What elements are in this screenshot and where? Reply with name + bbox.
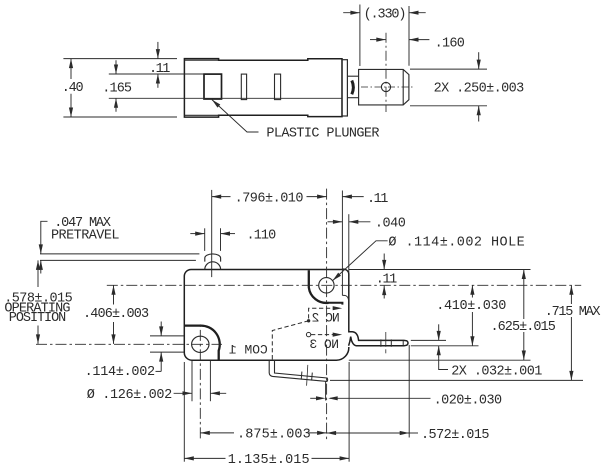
svg-text:(.330): (.330): [364, 8, 406, 23]
slot vertical centerline: [199, 324, 201, 441]
.047 bottom arrow: [39, 260, 43, 270]
.875 right arrow: [317, 431, 327, 435]
slot 3: [275, 74, 281, 100]
.11 vertical top arrow shaft: [383, 254, 385, 270]
.020 right shaft: [330, 397, 431, 399]
.406 upper shaft: [113, 285, 115, 304]
svg-text:COM 1: COM 1: [229, 342, 268, 357]
.406 bottom arrow: [111, 334, 115, 344]
.406 top arrow: [111, 285, 115, 295]
slot bottom extension left: [150, 351, 184, 353]
.165 top arrow shaft: [115, 60, 117, 74]
.110 left arrow shaft: [190, 233, 204, 235]
.040 left arrow shaft: [328, 221, 343, 223]
tip chamfer line: [402, 69, 404, 105]
spring mark in neck: [352, 81, 354, 95]
neck bottom edge: [347, 97, 358, 99]
neck top edge: [347, 75, 358, 77]
.110 left extension line: [204, 228, 206, 251]
body left edge extension down: [183, 362, 185, 462]
.578 top arrow: [36, 260, 40, 270]
.11 vertical bottom arrow: [382, 286, 386, 296]
collar ring: [342, 60, 347, 116]
plastic plunger leader: [212, 100, 259, 132]
COM terminal bend tick 1: [300, 372, 303, 380]
NO dashed arrowhead: [333, 333, 343, 337]
NO terminal tick 2: [390, 339, 392, 346]
.165 bottom arrow shaft: [115, 98, 117, 112]
svg-text:NC 2: NC 2: [312, 310, 339, 325]
.11 vertical top arrow: [382, 260, 386, 270]
plastic plunger leader arrowhead: [212, 100, 220, 108]
slot 2: [241, 74, 246, 100]
.715 bottom arrow: [569, 371, 573, 381]
slot horizontal centerline: [36, 343, 222, 345]
.020 right arrow: [328, 396, 338, 400]
.114 bottom arrow: [159, 352, 163, 362]
svg-text:Ø .114±.002 HOLE: Ø .114±.002 HOLE: [388, 235, 525, 250]
.410 bottom arrow: [470, 336, 474, 346]
terminal bottom extension right: [411, 345, 479, 347]
NO terminal tip bend line: [402, 340, 404, 345]
svg-text:.40: .40: [62, 81, 84, 96]
.020 left arrow: [316, 396, 326, 400]
1.135 dim line right: [312, 457, 350, 459]
tip vertical centerline: [385, 33, 387, 112]
.11 vertical bottom arrow shaft: [383, 286, 385, 299]
svg-text:PRETRAVEL: PRETRAVEL: [51, 228, 119, 243]
.572 dim line mid: [344, 432, 409, 434]
(.330) left extension line: [359, 5, 361, 67]
body right edge extension down: [348, 362, 350, 462]
hole horizontal centerline: [107, 284, 581, 286]
1.135 dim line left: [184, 457, 225, 459]
svg-text:NO 3: NO 3: [310, 337, 339, 352]
NO contact open circle: [306, 332, 310, 336]
.032 leader elbow: [439, 359, 448, 370]
.796 dim line left: [212, 196, 231, 198]
plunger tip outline: [359, 69, 409, 105]
slot left edge extension down: [191, 361, 193, 401]
.11 bottom arrow: [156, 74, 160, 84]
common contact pivot dot: [307, 319, 310, 322]
.020 left shaft: [310, 397, 319, 399]
tip horizontal centerline: [361, 86, 413, 88]
slot right edge extension down: [209, 361, 211, 401]
hole callout arrowhead: [333, 273, 341, 281]
svg-text:2X .250±.003: 2X .250±.003: [434, 81, 525, 96]
hole callout leader: [333, 241, 388, 281]
.796 right arrow: [317, 195, 327, 199]
svg-text:.165: .165: [102, 82, 132, 97]
body top edge extension right: [349, 269, 531, 271]
switch body outline: [184, 269, 408, 360]
.875 dim line right: [309, 432, 327, 434]
svg-text:1.135±.015: 1.135±.015: [228, 453, 310, 468]
.126 right arrow: [210, 391, 220, 395]
NC hidden terminal dashed leader: [309, 308, 336, 318]
svg-text:.110: .110: [247, 229, 277, 244]
hidden terminal tip extension line: [341, 191, 343, 296]
COM terminal outline: [269, 360, 327, 381]
.11 top arrow: [156, 49, 160, 59]
.110 right extension line: [220, 228, 222, 251]
.572 dim tail: [409, 432, 418, 434]
.40 bottom extension line: [63, 116, 177, 118]
.796 dim line right: [307, 196, 327, 198]
operating position line: [40, 259, 196, 261]
COM terminal hole centerline: [307, 365, 308, 386]
.625 upper shaft: [523, 270, 525, 320]
svg-text:.625±.015: .625±.015: [491, 320, 556, 335]
body bottom edge extension right: [349, 359, 531, 361]
svg-text:POSITION: POSITION: [9, 311, 66, 326]
.040 right arrow shaft: [349, 221, 371, 223]
.047 bottom arrow shaft: [40, 260, 42, 273]
2X .250 top arrow shaft: [478, 52, 480, 69]
body right edge extension up: [348, 214, 350, 273]
top-right boss bottom edge: [328, 303, 342, 305]
.572 right arrow: [400, 431, 410, 435]
bottom-left boss outline: [185, 326, 220, 360]
.40 bottom arrow: [69, 108, 73, 118]
.114 top arrow: [159, 326, 163, 336]
plunger vertical centerline / .796 extension: [211, 190, 213, 277]
svg-text:2X .032±.001: 2X .032±.001: [451, 365, 542, 380]
.572 left arrow: [327, 431, 337, 435]
svg-text:.410±.030: .410±.030: [436, 299, 506, 314]
plunger assembly body outline: [184, 59, 342, 118]
svg-text:.11: .11: [367, 192, 388, 207]
.715 top arrow: [569, 285, 573, 295]
2X .250 bottom arrow: [477, 106, 481, 116]
.165 upper extension line: [109, 73, 204, 75]
1.135 right arrow: [340, 456, 350, 460]
lowest plane extension line: [330, 379, 583, 381]
svg-text:.796±.010: .796±.010: [235, 192, 304, 207]
svg-text:.11: .11: [376, 273, 397, 288]
svg-text:.572±.015: .572±.015: [421, 428, 489, 443]
body seam line / .165 lower extension: [109, 97, 342, 99]
body top line under cap: [184, 59, 218, 61]
COM terminal bend tick 2: [311, 373, 314, 381]
.110 right arrow: [221, 232, 231, 236]
.047 top arrow: [39, 244, 43, 254]
mounting hole .114 circle: [319, 278, 334, 293]
.047 leader elbow: [41, 221, 48, 241]
svg-text:.040: .040: [375, 217, 406, 232]
2X .250 bottom arrow shaft: [478, 106, 480, 122]
.578 bottom arrow: [36, 334, 40, 344]
slot top extension left: [150, 335, 184, 337]
NO terminal hole centerline: [385, 332, 387, 347]
.126 right arrow shaft: [210, 392, 226, 394]
tip cross hole circle: [381, 82, 390, 91]
.406 lower shaft: [113, 322, 115, 344]
.11 dim shaft: [342, 196, 363, 198]
.40 dim line upper: [70, 59, 72, 79]
.625 lower shaft: [523, 332, 525, 360]
mounting slot .126 ellipse: [192, 336, 209, 352]
svg-text:Ø .126±.002: Ø .126±.002: [87, 388, 172, 403]
(.330) right arrow: [409, 11, 419, 15]
1.135 left arrow: [184, 456, 194, 460]
.40 top arrow: [69, 59, 73, 69]
.11 arrow: [342, 195, 352, 199]
.047 top arrow shaft: [40, 242, 42, 254]
.715 lower shaft: [570, 317, 572, 380]
2X .250 bottom extension line: [410, 105, 487, 107]
terminal tip corner extension: [325, 382, 327, 401]
.032 top arrow: [437, 331, 441, 341]
.160 left arrow shaft: [370, 39, 386, 41]
(.330)/.160 right extension line: [408, 6, 410, 66]
plastic plunger window: [204, 74, 222, 99]
.110 left arrow: [195, 232, 205, 236]
(.330) right arrow shaft: [409, 12, 426, 14]
.11 top arrow shaft: [157, 42, 159, 59]
(.330) left arrow shaft: [343, 12, 360, 14]
svg-text:.11: .11: [149, 62, 170, 77]
svg-text:.020±.030: .020±.030: [434, 394, 502, 409]
NO hidden terminal dashed leader: [311, 334, 336, 336]
NC dashed arrowhead: [333, 306, 343, 310]
svg-text:.875±.003: .875±.003: [237, 428, 311, 443]
.114 top arrow shaft: [160, 322, 162, 336]
.160 right arrow shaft: [409, 39, 429, 41]
svg-text:.160: .160: [435, 36, 465, 51]
top-right boss notch and arc: [309, 270, 329, 303]
hole vertical centerline: [326, 189, 328, 441]
.165 top arrow: [114, 65, 118, 75]
.875 dim line left: [200, 432, 234, 434]
.114 bottom arrow shaft: [160, 352, 162, 371]
NO terminal tick 1: [380, 339, 382, 346]
.032 bottom arrow: [437, 346, 441, 356]
.410 upper shaft: [471, 285, 473, 297]
svg-text:.715 MAX: .715 MAX: [545, 305, 601, 320]
.578 dim upper shaft: [37, 260, 39, 287]
dashed link from pivot to COM terminal: [272, 321, 308, 360]
.410 lower shaft: [471, 312, 473, 346]
.160 right arrow: [409, 38, 419, 42]
svg-text:PLASTIC PLUNGER: PLASTIC PLUNGER: [266, 127, 379, 142]
terminal tip extension down: [408, 345, 410, 438]
terminal extension fillet into body edge: [342, 295, 348, 299]
NO terminal hole centerline dash: [385, 349, 387, 353]
2X .250 top extension line: [410, 68, 487, 70]
2X .250 top arrow: [477, 60, 481, 70]
.110 right arrow shaft: [221, 233, 236, 235]
.126 left arrow: [183, 391, 193, 395]
svg-text:.114±.002: .114±.002: [85, 365, 155, 380]
.625 top arrow: [522, 270, 526, 280]
.114 leader elbow: [156, 370, 162, 372]
plunger operating position dome: [205, 262, 221, 270]
.160 left arrow: [376, 38, 386, 42]
.126 left arrow shaft: [174, 392, 192, 394]
.715 upper shaft: [570, 285, 572, 304]
.032 bottom arrow shaft: [438, 346, 440, 359]
.040 left arrow: [333, 220, 343, 224]
.165 bottom arrow: [114, 98, 118, 108]
.032 top arrow shaft: [438, 324, 440, 340]
svg-text:.406±.003: .406±.003: [83, 307, 149, 322]
.875 left arrow: [200, 431, 210, 435]
.578 dim lower shaft: [37, 326, 39, 344]
.040 right arrow: [349, 220, 359, 224]
.410 top arrow: [470, 285, 474, 295]
body bottom line under cap: [184, 114, 218, 116]
terminal top extension right: [411, 339, 446, 341]
.40 dim line lower: [70, 94, 72, 117]
.625 bottom arrow: [522, 351, 526, 361]
free position line: [40, 253, 199, 255]
plunger free position dome: [205, 254, 221, 262]
.11 bottom arrow shaft: [157, 74, 159, 88]
(.330) left arrow: [350, 11, 360, 15]
.40 top extension line: [63, 58, 177, 60]
.572 dim line left: [327, 432, 344, 434]
.796 left arrow: [212, 195, 222, 199]
